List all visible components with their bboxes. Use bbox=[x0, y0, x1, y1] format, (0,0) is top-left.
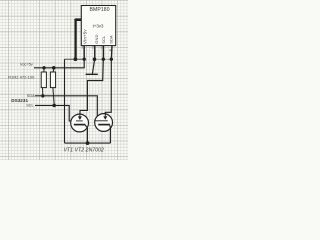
wire pin2 to ground bbox=[92, 61, 94, 74]
svg-text:3: 3 bbox=[101, 45, 103, 49]
wire SDA bbox=[35, 96, 97, 118]
resistor R1 bbox=[41, 72, 46, 88]
svg-text:BMP180: BMP180 bbox=[90, 7, 110, 13]
svg-text:4: 4 bbox=[109, 49, 111, 53]
resistor R2 bbox=[50, 72, 55, 88]
svg-text:VIn+5v: VIn+5v bbox=[83, 29, 88, 44]
pin 2 stub bbox=[94, 46, 96, 58]
svg-text:Vcc=5v: Vcc=5v bbox=[20, 62, 33, 67]
wire rail y59 right segment bbox=[95, 58, 112, 60]
wire pin3 to VT1 drain bbox=[80, 60, 103, 115]
BMP180 module U1 body bbox=[81, 6, 115, 46]
node dot R2 bottom on SCL bbox=[52, 104, 56, 108]
node dot pin4 junction bbox=[110, 58, 113, 61]
svg-text:t+3v3: t+3v3 bbox=[93, 23, 104, 28]
svg-text:SCL: SCL bbox=[101, 35, 106, 44]
svg-text:1: 1 bbox=[81, 45, 83, 49]
wire R2 top stub bbox=[52, 68, 55, 72]
node dot pin3 junction bbox=[102, 58, 105, 61]
ground bar bbox=[86, 73, 98, 75]
svg-text:2: 2 bbox=[92, 45, 94, 49]
wire rail y59 left segment bbox=[65, 58, 85, 60]
wire x64.5 vertical bbox=[64, 59, 66, 143]
svg-text:SDA: SDA bbox=[109, 35, 114, 44]
pin 1 stub bbox=[83, 46, 85, 58]
transistor VT1 source lead bbox=[85, 125, 87, 143]
wire Vcc=5v to pin1 bbox=[34, 59, 84, 68]
svg-text:VT1 VT2 2N7002: VT1 VT2 2N7002 bbox=[64, 147, 104, 153]
svg-text:SCL: SCL bbox=[26, 104, 33, 108]
pin 4 stub bbox=[110, 46, 113, 58]
transistor VT1 channel bar bbox=[74, 124, 86, 126]
transistor VT2 channel bar bbox=[98, 124, 110, 126]
svg-text:GND: GND bbox=[94, 34, 99, 43]
wire R2 bottom stub bbox=[53, 88, 54, 104]
transistor VT2 gate bar bbox=[94, 120, 108, 122]
wire R1 top stub bbox=[43, 68, 45, 72]
wire SCL bbox=[35, 105, 74, 121]
pin 3 stub bbox=[102, 46, 104, 58]
svg-text:R1R2 472-100: R1R2 472-100 bbox=[8, 74, 35, 79]
wire pin4 to VT2 drain bbox=[105, 60, 111, 117]
transistor VT1 body bbox=[71, 114, 89, 132]
transistor VT2 source lead bbox=[109, 125, 112, 143]
wire bottom rail bbox=[65, 142, 111, 144]
svg-text:DS3231: DS3231 bbox=[11, 98, 28, 103]
wire thick +3v3 bar into BMP180 bbox=[76, 18, 94, 21]
transistor VT1 drain arrow bbox=[79, 114, 81, 116]
svg-text:SDA: SDA bbox=[27, 94, 35, 98]
node dot pin2 junction bbox=[93, 57, 97, 61]
wire R1 bottom stub bbox=[42, 88, 44, 95]
node dot pin1 junction bbox=[83, 58, 86, 61]
node dot VT1 source on rail bbox=[86, 141, 90, 145]
transistor VT2 body bbox=[95, 114, 113, 132]
transistor VT1 gate bar bbox=[76, 120, 83, 122]
node dot R1 top bbox=[42, 66, 45, 69]
node dot R2 top bbox=[52, 66, 56, 70]
node dot thick wire junction bbox=[74, 57, 78, 61]
node dot R1 bottom on SDA bbox=[41, 94, 44, 97]
transistor VT2 drain arrow bbox=[104, 112, 106, 116]
wire thick +3v3 vertical bbox=[74, 19, 76, 58]
